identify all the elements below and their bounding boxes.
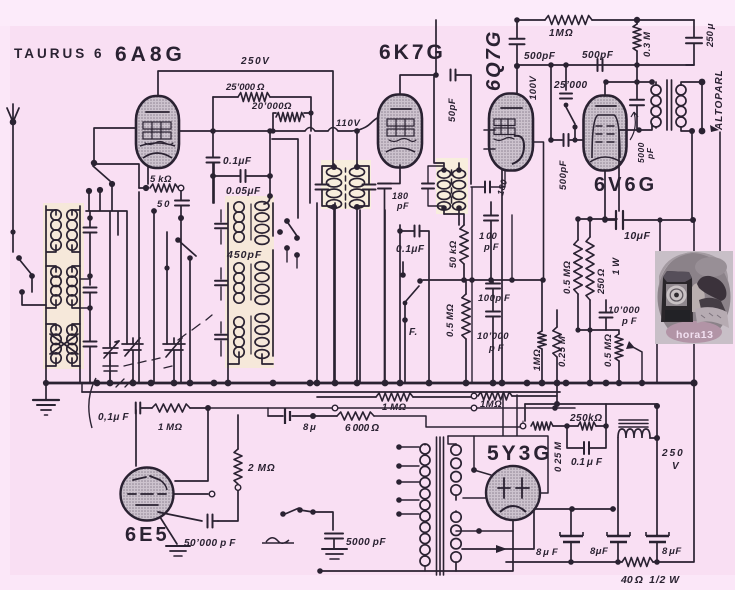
antenna coil highlight [43,203,84,369]
resistor 40 ohm [620,558,680,587]
svg-text:180: 180 [392,191,409,201]
bus dots [94,380,610,387]
capacitor 8uF C21 [590,532,630,565]
label 250V right [661,448,683,472]
capacitor 500pF b [582,50,614,71]
tone network 25000 [553,65,588,143]
tuning capacitor CV3 [163,338,185,383]
photo inset hora13 [655,251,733,344]
IF T2 coils [438,167,466,211]
label 110V [336,118,361,129]
svg-text:5 kΩ: 5 kΩ [150,174,172,185]
resistor 5k cathode [139,166,184,192]
second bus wire [82,383,560,392]
svg-text:hora13: hora13 [676,329,713,341]
capacitor 50 [157,191,189,383]
ground symbol main [33,383,59,415]
resistor 0.5M grid [562,219,582,330]
svg-text:V: V [672,461,680,472]
IF T1 coils [327,164,365,210]
capacitor 0.05uF osc [213,131,310,204]
tuning capacitor CV1 [103,341,119,383]
wire bias node [575,327,606,383]
capacitor 8uF [268,408,337,433]
capacitor 10uF [602,130,696,242]
tube 6K7G U2 [378,95,422,168]
wire verticals to bus [317,203,385,383]
svg-text:0.5 MΩ: 0.5 MΩ [603,333,614,367]
wire cathode line [575,170,617,222]
svg-text:6 000 Ω: 6 000 Ω [345,423,380,434]
wire top rail [514,17,694,23]
trimmer capacitor C1 [84,211,97,285]
svg-text:250kΩ: 250kΩ [569,413,603,424]
svg-text:25’000 Ω: 25’000 Ω [225,82,265,93]
wire rectifier output [525,403,660,409]
svg-text:6Q7G: 6Q7G [483,30,505,91]
capacitor 180 grid 6Q7G [469,171,512,383]
oscillator coil highlight [225,196,274,368]
wire rectifier plates [448,436,513,534]
capacitor 0.1uF AVC [396,226,429,384]
tube label 6K7G [379,41,446,64]
capacitor 180pF cathode [378,165,409,383]
label 250V [240,56,270,67]
svg-text:0.5 MΩ: 0.5 MΩ [445,303,456,337]
filter choke L7 [618,420,660,535]
title TAURUS 6 [14,46,105,61]
wire bus line3 [208,405,575,416]
IF transformer T1 highlight [321,160,371,209]
wire 6V6G plate [603,79,655,96]
tube label 6E5 [125,524,170,546]
svg-text:10μF: 10μF [624,230,651,242]
wire 250V rail [158,71,333,167]
svg-text:1 00: 1 00 [479,231,497,242]
svg-text:0.1μF: 0.1μF [396,244,425,255]
svg-text:6V6G: 6V6G [594,174,657,196]
svg-text:0.3 M: 0.3 M [642,31,653,57]
svg-text:ALTOPARL: ALTOPARL [714,69,725,131]
capacitor 50pF top [447,70,471,185]
svg-text:2 MΩ: 2 MΩ [247,463,276,474]
wire 6E5 grid [136,408,215,497]
wire 6Q7G cathode [501,170,503,383]
capacitor osc pad [215,210,227,244]
oscillator switch S4 [272,139,300,268]
resistor 0.5M detector [445,280,470,383]
IF T1 trim capacitors [316,166,376,206]
wire bottom bus [506,383,694,562]
power transformer T4 secondary fil [451,511,461,571]
svg-text:110V: 110V [336,118,361,129]
tube label 5Y3G [487,442,553,465]
svg-text:20’000Ω: 20’000Ω [251,101,292,112]
svg-text:0.05μF: 0.05μF [226,186,261,197]
svg-text:40 Ω 1/2 W: 40 Ω 1/2 W [620,574,680,586]
svg-text:50 kΩ: 50 kΩ [448,240,459,268]
svg-text:0 25 M: 0 25 M [553,441,564,472]
resistor 0.5M hum [603,330,645,386]
svg-text:0.5 MΩ: 0.5 MΩ [562,260,573,294]
tube 6E5 U5 [121,468,174,521]
svg-text:250 μ: 250 μ [705,23,716,48]
power transformer T4 core [437,437,444,575]
resistor 250k [567,404,609,430]
svg-text:10’000: 10’000 [608,305,640,316]
svg-text:5 0: 5 0 [157,199,170,210]
svg-text:6E5: 6E5 [125,524,170,546]
svg-text:0,1μ F: 0,1μ F [98,412,129,423]
antenna coil L3a [46,324,80,366]
wire vertical v1 [213,163,215,203]
resistor 1M top [545,16,592,40]
antenna [7,104,19,235]
resistor 50k [444,214,468,283]
power switch S5 [280,507,333,530]
svg-text:0.1 μ F: 0.1 μ F [571,457,603,468]
svg-text:pF: pF [645,147,655,160]
resistor 250 ohm 1W [586,219,622,330]
antenna coil L1 wiring [46,206,80,383]
wire B+ vertical [657,217,698,386]
svg-text:50’000 p F: 50’000 p F [184,538,236,549]
svg-text:100V: 100V [528,76,539,100]
padder capacitor C4 [103,360,118,383]
antenna coil L1a [51,210,77,250]
capacitor 0.1uF filter [567,426,606,468]
tube label 6Q7G [483,30,505,91]
wave band switch S1 [13,232,46,305]
5Y3G box wires [448,395,548,493]
IF transformer T2 highlight [436,158,468,214]
capacitor 8uF C20 [536,509,583,565]
capacitor 500pF coupling [548,65,584,190]
svg-text:8 μ F: 8 μ F [536,547,558,558]
ground 5000pF [322,549,347,559]
svg-text:2 5 0: 2 5 0 [661,448,683,459]
capacitor 100pF diode [479,202,499,283]
power transformer taps [396,444,419,517]
resistor 6000 ohm [337,412,521,434]
svg-text:0.1μF: 0.1μF [223,156,252,167]
oscillator coil L5 [234,262,269,305]
tuning capacitor CV2 [122,338,143,383]
label 0.25M bleeder [553,401,564,472]
svg-text:p F: p F [621,316,637,327]
label 450pF [226,249,262,261]
svg-text:F.: F. [409,327,418,338]
output transformer T3 [651,79,705,135]
svg-text:450pF: 450pF [226,249,262,261]
svg-text:250 Ω: 250 Ω [596,268,607,295]
wire 6A8G grid line [91,128,139,383]
svg-text:6A8G: 6A8G [115,43,186,66]
bus arc decoration [89,378,133,428]
svg-text:50pF: 50pF [447,98,458,122]
capacitor osc pad2 [215,268,227,300]
capacitor 5000pF line [325,534,386,549]
resistor 25000 ohm [213,82,314,131]
power transformer T4 primary [420,444,430,571]
oscillator coil L6 [228,250,273,364]
oscillator coil L4 [228,202,273,383]
svg-text:1MΩ: 1MΩ [549,28,574,39]
tube label 6A8G [115,43,186,66]
IF T2 leads [434,75,459,225]
svg-text:500pF: 500pF [558,160,569,190]
svg-text:5Y3G: 5Y3G [487,442,553,465]
tube label 6V6G [594,174,657,196]
wire 6Q7G top [514,20,520,94]
capacitor osc pad3 [215,322,227,356]
plate line 100V [515,62,694,100]
svg-text:25’000: 25’000 [553,80,588,91]
svg-text:5000 pF: 5000 pF [346,537,386,548]
switch F [400,262,423,383]
IF T2 trim capacitor left [422,166,444,206]
capacitor 250uF speaker [686,20,716,65]
capacitor 50pF plate [510,39,525,45]
capacitor 50000pF [158,512,236,549]
capacitor 10000pF [477,311,509,383]
tube 6A8G U1 [136,96,179,168]
resistor 0.25M AF [553,310,568,404]
svg-text:500pF: 500pF [524,51,556,62]
capacitor 0.1uF osc [207,131,252,203]
AF signal symbol [262,538,294,544]
capacitor 5000pF [619,82,655,163]
wire AVC line [423,142,546,283]
trimmer capacitor C2 [80,279,97,383]
resistor 20000 ohm [251,101,311,134]
svg-text:250V: 250V [240,56,270,67]
svg-text:1 MΩ: 1 MΩ [158,422,183,433]
svg-text:100p F: 100p F [478,293,510,304]
resistor 1M AF [532,280,546,383]
capacitor 100pF 2 [478,280,510,310]
capacitor 8uF C22 [646,532,682,565]
label ALTOPARL [714,69,725,131]
speaker return wire [692,125,720,251]
resistor 0.3M [633,20,653,82]
power transformer T4 secondary HT [451,444,461,500]
svg-text:pF: pF [396,201,409,211]
svg-text:8 μF: 8 μF [662,546,682,557]
wire choke node [656,406,658,535]
svg-text:8μF: 8μF [590,546,608,557]
capacitor 10000pF cathode [600,300,641,330]
label 500pF a [524,51,556,62]
gang link dashed [124,315,212,368]
resistor 1M 6E5 [152,404,211,433]
main bus wire [43,380,695,386]
resistor field coil [520,404,570,430]
resistor 1M bus a [317,393,476,413]
band switch S3 contacts [151,208,196,383]
capacitor 0.1uF 6E5 [98,392,152,423]
resistor 2M [218,415,276,521]
resistor 1M bus b [471,392,557,410]
IF T1 leads [334,131,357,383]
svg-text:8 μ: 8 μ [303,422,316,433]
band switch S2 contacts [86,166,127,344]
wire 5Y3G cathode out [462,506,616,562]
tube 5Y3G U6 [486,466,540,520]
wire bottom left [317,562,513,574]
wire 6A8G plate line [179,117,379,134]
ground 6E5 [160,517,190,556]
wire 6K7G plate top [400,20,439,94]
tube 6V6G U4 [584,96,627,171]
antenna coil L2a [46,266,80,308]
tube 6Q7G U3 [484,94,533,171]
svg-text:TAURUS 6: TAURUS 6 [14,46,105,61]
svg-text:1 W: 1 W [611,257,622,275]
